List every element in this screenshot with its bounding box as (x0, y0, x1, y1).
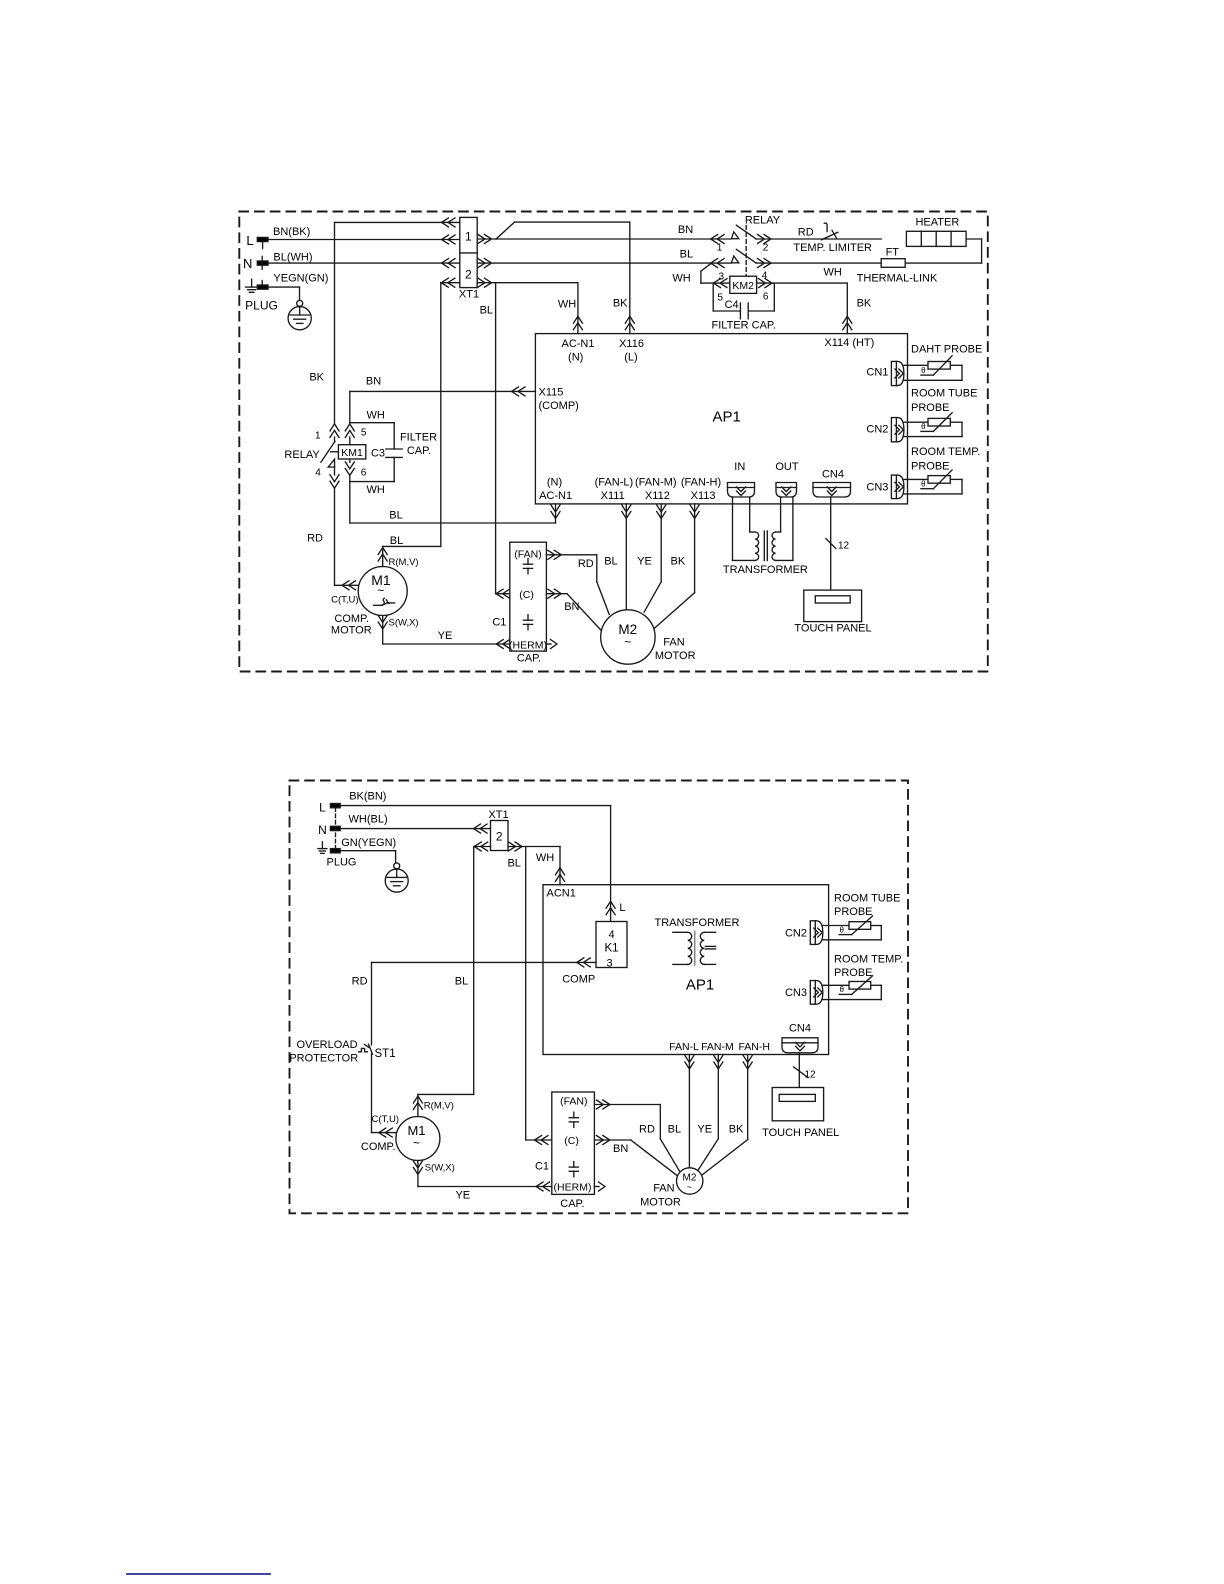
fan motor M2 (diagram 2) (640, 1168, 703, 1209)
svg-text:WH(BL): WH(BL) (349, 814, 388, 826)
dashed enclosure border (indoor unit), diagram 2 (290, 781, 909, 1214)
svg-text:RD: RD (578, 558, 594, 570)
pin FAN-M wire to fan motor d2 (696, 1041, 734, 1173)
svg-text:OVERLOAD: OVERLOAD (296, 1039, 357, 1051)
wire row D BL from XT1 to AC-N1 (N) top entry (477, 278, 582, 333)
svg-text:2: 2 (763, 243, 769, 254)
pin X112 (FAN-M) wire to fan motor (635, 477, 677, 613)
svg-text:BL: BL (389, 510, 402, 522)
node X115 (COMP) label (539, 386, 579, 412)
transformer secondary winding (723, 497, 808, 576)
svg-text:R(M,V): R(M,V) (424, 1101, 454, 1112)
svg-text:C1: C1 (535, 1160, 549, 1172)
svg-text:RD: RD (307, 532, 323, 544)
svg-text:θ: θ (921, 479, 926, 488)
wire row B BN from XT1 to relay KM2 top contact (477, 224, 731, 244)
protective earth circle d2 (385, 863, 408, 892)
connector CN3 and room temp probe (866, 446, 980, 499)
dashed enclosure border (indoor unit), diagram 1 (239, 212, 988, 672)
svg-text:WH: WH (367, 409, 385, 421)
svg-text:(N): (N) (547, 477, 562, 489)
svg-text:ROOM TUBE: ROOM TUBE (911, 388, 977, 400)
terminal N (plug pin N) d2 (318, 823, 340, 837)
svg-text:CN4: CN4 (789, 1023, 811, 1035)
svg-text:BK: BK (613, 298, 628, 310)
svg-text:CN4: CN4 (822, 469, 844, 481)
svg-text:RELAY: RELAY (745, 214, 781, 226)
svg-text:BK: BK (857, 298, 872, 310)
wire S(W,X) YE from M1 to C1 HERM (378, 616, 510, 649)
svg-text:CN2: CN2 (785, 927, 807, 939)
svg-text:ACN1: ACN1 (547, 888, 576, 900)
svg-text:X113: X113 (691, 490, 716, 502)
connector IN on AP1 bottom (728, 461, 755, 497)
svg-text:BN: BN (366, 376, 381, 388)
wire C1 HERM stub arrow (546, 640, 557, 649)
svg-text:N: N (243, 256, 252, 271)
svg-text:BN: BN (564, 601, 579, 613)
thermal link FT (824, 246, 938, 284)
svg-text:X111: X111 (601, 490, 625, 502)
mechanical link dashed line (relay to KM2) (745, 226, 747, 277)
svg-text:5: 5 (717, 293, 723, 304)
svg-text:FT: FT (886, 246, 900, 258)
svg-text:CN2: CN2 (866, 424, 888, 436)
svg-text:K1: K1 (604, 943, 618, 955)
svg-text:1: 1 (465, 230, 472, 244)
svg-text:COMP: COMP (562, 973, 595, 985)
svg-text:BK(BN): BK(BN) (349, 791, 386, 803)
svg-text:1: 1 (717, 243, 723, 254)
wire KM1 pin 5 (WH) and loop top (345, 409, 394, 444)
node X116 (L) label (619, 338, 644, 364)
svg-text:4: 4 (315, 468, 321, 479)
svg-text:MOTOR: MOTOR (331, 625, 372, 637)
connector OUT on AP1 bottom (775, 461, 799, 497)
wire C1 HERM stub arrow d2 (594, 1182, 605, 1191)
wire N BL(WH) from plug to XT1 row C (268, 252, 460, 268)
wire C1 FAN to fan motor (RD) d2 (594, 1100, 680, 1173)
svg-text:(COMP): (COMP) (539, 400, 579, 412)
svg-text:BN: BN (678, 224, 693, 236)
relay coil KM1 box (331, 445, 366, 459)
pin FAN-H wire to fan motor d2 (700, 1041, 770, 1177)
svg-text:CAP.: CAP. (560, 1198, 584, 1210)
connector CN4 on AP1 bottom d2 (782, 1023, 818, 1053)
wire branch L to X116 (jog up and over) (496, 222, 634, 334)
wire CN4 to touch panel with 12-core mark d2 (794, 1053, 817, 1088)
wire RD from ST1 to M1 C(T,U) d2 (361, 1054, 399, 1153)
svg-text:PROTECTOR: PROTECTOR (289, 1052, 358, 1064)
svg-text:C(T,U): C(T,U) (372, 1114, 399, 1125)
svg-text:FAN: FAN (663, 637, 684, 649)
svg-text:~: ~ (413, 1136, 420, 1150)
svg-text:5: 5 (361, 428, 367, 439)
svg-text:FAN-L: FAN-L (669, 1041, 699, 1053)
heater resistor bank (906, 216, 966, 246)
temp limiter switch (RD) (793, 223, 872, 254)
svg-text:(C): (C) (519, 589, 534, 601)
wire R(M,V) into M1 top (378, 546, 418, 568)
svg-text:FAN: FAN (653, 1183, 674, 1195)
controller board AP1 (diagram 2) (543, 885, 829, 1055)
node AC-N1 (N) top label (561, 338, 594, 364)
terminal N (plug pin N) (243, 256, 268, 271)
wire BL from XT1 down to M1 R(M,V) d2 (418, 842, 521, 1094)
svg-text:WH: WH (824, 266, 842, 278)
svg-text:3: 3 (719, 271, 725, 282)
svg-text:CN3: CN3 (785, 987, 807, 999)
svg-text:2: 2 (465, 268, 472, 282)
svg-text:BL: BL (507, 858, 520, 870)
svg-text:2: 2 (496, 830, 503, 844)
wire AC-N1 (N) bottom pin to KM1 coil loop (BL) (350, 477, 572, 524)
wire C1 FAN to fan motor (RD) (546, 550, 609, 614)
svg-text:KM2: KM2 (732, 280, 754, 292)
wire row C BL from XT1 to relay KM2 bottom contact (477, 249, 731, 268)
svg-text:RD: RD (798, 227, 814, 239)
svg-text:TRANSFORMER: TRANSFORMER (655, 917, 740, 929)
svg-text:YE: YE (438, 630, 453, 642)
wire row A from XT1-1 to BK drop (309, 218, 459, 424)
svg-text:MOTOR: MOTOR (655, 650, 696, 662)
svg-text:BL(WH): BL(WH) (273, 252, 312, 264)
svg-text:BK: BK (309, 372, 324, 384)
wire COMP RD from K1 pin 3 to overload protector ST1 (352, 958, 596, 1045)
pin X111 (FAN-L) wire to fan motor (595, 477, 634, 610)
svg-text:AC-N1: AC-N1 (539, 490, 572, 502)
svg-text:PROBE: PROBE (834, 906, 873, 918)
svg-text:WH: WH (536, 852, 554, 864)
wire C(T,U) RD into M1 left (331, 581, 372, 637)
wire L BN(BK) from plug to XT1 row B (268, 226, 460, 244)
svg-text:GN(YEGN): GN(YEGN) (341, 837, 396, 849)
wire YEGN(GN) from PE to earth (268, 273, 328, 301)
svg-text:YE: YE (455, 1190, 470, 1202)
svg-text:WH: WH (672, 273, 690, 285)
capacitor C1 box (dual run cap) (492, 542, 547, 664)
svg-text:C(T,U): C(T,U) (331, 595, 358, 606)
terminal L (plug pin L) (246, 233, 268, 249)
svg-text:X115: X115 (539, 386, 564, 398)
controller board AP1 (diagram 1) (535, 334, 907, 504)
label PLUG (245, 299, 278, 313)
svg-text:(N): (N) (568, 352, 583, 364)
wire C1 C to fan motor (BN) d2 (594, 1136, 678, 1177)
connector CN2 and room tube probe d2 (785, 893, 900, 945)
svg-text:CN1: CN1 (866, 367, 888, 379)
svg-text:θ: θ (839, 925, 844, 934)
relay contact KM2 pins 3-4 wait (BL row) (731, 249, 881, 267)
svg-text:XT1: XT1 (459, 289, 479, 301)
svg-text:YEGN(GN): YEGN(GN) (273, 273, 328, 285)
svg-text:TEMP. LIMITER: TEMP. LIMITER (793, 242, 872, 254)
node X114 (HT) label (824, 337, 874, 349)
protective earth circle (288, 300, 311, 329)
svg-text:COMP.: COMP. (334, 613, 369, 625)
svg-text:(HERM): (HERM) (554, 1181, 592, 1193)
svg-text:RD: RD (639, 1124, 655, 1136)
svg-text:S(W,X): S(W,X) (389, 617, 419, 628)
wire KM1 pin 6 (WH) and loop bottom (345, 459, 394, 496)
svg-text:XT1: XT1 (488, 809, 508, 821)
svg-text:FAN-H: FAN-H (738, 1041, 770, 1053)
svg-text:~: ~ (624, 635, 631, 649)
svg-text:(FAN-M): (FAN-M) (635, 477, 677, 489)
svg-text:DAHT PROBE: DAHT PROBE (911, 344, 982, 356)
svg-text:12: 12 (838, 540, 850, 551)
svg-text:PROBE: PROBE (911, 402, 950, 414)
svg-text:R(M,V): R(M,V) (389, 557, 419, 568)
svg-text:WH: WH (367, 484, 385, 496)
svg-text:L: L (619, 902, 625, 914)
svg-text:6: 6 (361, 467, 367, 478)
svg-text:(C): (C) (564, 1135, 579, 1147)
capacitor C3 (filter cap) (371, 423, 437, 482)
svg-text:(L): (L) (624, 352, 637, 364)
capacitor C1 box (dual run cap) d2 (535, 1092, 594, 1210)
svg-text:BN: BN (613, 1143, 628, 1155)
svg-text:3: 3 (606, 958, 612, 970)
svg-text:THERMAL-LINK: THERMAL-LINK (857, 273, 938, 285)
compressor motor M1 (diagram 1) (358, 567, 407, 616)
svg-text:C1: C1 (492, 616, 506, 628)
svg-text:(FAN-L): (FAN-L) (595, 477, 634, 489)
relay contact KM2 pins 1-2 (BN row) (717, 214, 881, 253)
svg-text:OUT: OUT (775, 461, 799, 473)
connector CN3 and room temp probe d2 (785, 954, 903, 1005)
wire WH from XT1 to ACN1 d2 (508, 842, 565, 885)
svg-text:AP1: AP1 (686, 977, 714, 994)
svg-text:L: L (319, 801, 326, 815)
svg-text:C3: C3 (371, 448, 385, 460)
wire C1 C to fan motor (BN) (546, 589, 600, 630)
svg-text:BK: BK (729, 1124, 744, 1136)
svg-text:YE: YE (637, 556, 652, 568)
touch panel box d2 (762, 1088, 839, 1139)
pin FAN-L wire to fan motor d2 (668, 1041, 699, 1168)
svg-text:ROOM TEMP.: ROOM TEMP. (834, 954, 903, 966)
svg-text:ROOM TEMP.: ROOM TEMP. (911, 446, 980, 458)
svg-text:MOTOR: MOTOR (640, 1196, 681, 1208)
compressor motor M1 (diagram 2) (396, 1117, 440, 1161)
svg-text:PLUG: PLUG (327, 857, 357, 869)
svg-text:AC-N1: AC-N1 (561, 338, 594, 350)
capacitor C4 (filter cap) loop (712, 283, 776, 332)
pin X113 (FAN-H) wire to fan motor (654, 477, 721, 629)
earth symbol at plug (246, 279, 258, 292)
wire S(W,X) YE from M1 to C1 HERM d2 (413, 1161, 551, 1202)
svg-text:TRANSFORMER: TRANSFORMER (723, 564, 808, 576)
svg-text:HEATER: HEATER (915, 216, 959, 228)
wire N WH(BL) from plug to XT1 (340, 814, 490, 834)
svg-text:PLUG: PLUG (245, 299, 278, 313)
wire WH elbow from BL row to KM2 pin 3 (672, 263, 729, 287)
svg-text:WH: WH (558, 299, 576, 311)
svg-text:COMP.: COMP. (361, 1141, 396, 1153)
wire heater return to thermal link (905, 239, 981, 263)
svg-text:(FAN): (FAN) (560, 1095, 587, 1107)
wire GN(YEGN) from PE to earth d2 (340, 837, 396, 863)
touch panel box (794, 590, 871, 635)
svg-text:θ: θ (921, 366, 926, 375)
svg-text:N: N (318, 823, 327, 837)
terminal L (plug pin L) d2 (319, 801, 340, 815)
svg-text:BL: BL (680, 249, 693, 261)
svg-text:X116: X116 (619, 338, 644, 350)
svg-text:FILTER: FILTER (400, 432, 437, 444)
svg-text:S(W,X): S(W,X) (425, 1163, 455, 1174)
svg-text:CAP.: CAP. (407, 445, 431, 457)
svg-text:~: ~ (377, 584, 384, 598)
svg-text:4: 4 (608, 929, 614, 941)
svg-text:ROOM TUBE: ROOM TUBE (834, 893, 900, 905)
svg-text:IN: IN (734, 461, 745, 473)
svg-text:TOUCH PANEL: TOUCH PANEL (794, 623, 871, 635)
svg-text:(HERM): (HERM) (509, 640, 547, 652)
svg-text:6: 6 (763, 292, 769, 303)
svg-text:θ: θ (839, 985, 844, 994)
fan motor M2 (diagram 1) (601, 610, 696, 664)
footer blue rule (127, 1573, 270, 1575)
svg-text:θ: θ (921, 422, 926, 431)
svg-text:PROBE: PROBE (834, 967, 873, 979)
transformer primary winding (733, 497, 759, 560)
wire BL branch down to capacitor C1 (C) d2 (526, 847, 552, 1145)
svg-text:ST1: ST1 (375, 1048, 396, 1060)
svg-text:1: 1 (315, 431, 321, 442)
svg-text:CN3: CN3 (866, 482, 888, 494)
transformer core (764, 531, 767, 561)
relay coil KM2 box (719, 270, 768, 293)
relay K1 box d2 (596, 922, 627, 970)
svg-text:TOUCH PANEL: TOUCH PANEL (762, 1127, 839, 1139)
svg-text:PROBE: PROBE (911, 460, 950, 472)
wire BN from KM1 coil to X115 (COMP) (350, 376, 536, 423)
svg-text:KM1: KM1 (341, 447, 363, 459)
wire CN4 to touch panel with 12-core mark (826, 497, 850, 590)
svg-text:(FAN-H): (FAN-H) (681, 477, 721, 489)
connector CN1 and DAHT probe (866, 344, 982, 386)
svg-text:L: L (246, 233, 253, 248)
earth symbol at plug d2 (318, 842, 327, 854)
svg-text:BL: BL (390, 535, 403, 547)
overload protector ST1 (289, 1039, 395, 1065)
svg-text:BL: BL (604, 556, 617, 568)
node ACN1 label d2 (547, 888, 576, 900)
svg-text:BL: BL (455, 976, 468, 988)
svg-text:X112: X112 (645, 490, 670, 502)
terminal PE (plug earth pin) d2 (330, 849, 340, 853)
terminal PE (plug earth pin) (257, 281, 268, 290)
svg-text:~: ~ (687, 1182, 692, 1192)
svg-text:AP1: AP1 (713, 409, 741, 426)
relay KM1 contact pins 1-4 (284, 424, 339, 585)
svg-text:BL: BL (668, 1124, 681, 1136)
svg-text:12: 12 (805, 1070, 817, 1081)
svg-text:RD: RD (352, 976, 368, 988)
dashed plug link line d2 (335, 808, 337, 849)
svg-text:FILTER CAP.: FILTER CAP. (712, 320, 776, 332)
connector CN2 and room tube probe (866, 388, 977, 442)
terminal block XT1 (diagram 1) (459, 217, 479, 300)
transformer (diagram 2) (655, 917, 740, 965)
wire BL branch down to capacitor C1 (C) (496, 283, 510, 599)
terminal block XT1 (diagram 2) (488, 809, 508, 851)
svg-text:C4: C4 (725, 299, 739, 311)
svg-text:BL: BL (480, 305, 493, 317)
connector CN4 on AP1 bottom (813, 469, 851, 498)
svg-text:CAP.: CAP. (517, 652, 541, 664)
svg-text:YE: YE (697, 1124, 712, 1136)
wire R(M,V) into M1 top d2 (413, 1094, 453, 1116)
svg-text:BK: BK (671, 556, 686, 568)
svg-text:RELAY: RELAY (284, 449, 320, 461)
label PLUG d2 (327, 857, 357, 869)
svg-text:FAN-M: FAN-M (701, 1041, 734, 1053)
wire BL from XT1 row D to M1 R(M,V) (383, 278, 460, 547)
wire KM2 pin 4 to X114 (HT) (757, 279, 872, 334)
svg-text:BN(BK): BN(BK) (273, 226, 310, 238)
wire L BK(BN) from plug to K1 pin 4 (340, 791, 625, 922)
svg-text:X114 (HT): X114 (HT) (824, 337, 874, 349)
